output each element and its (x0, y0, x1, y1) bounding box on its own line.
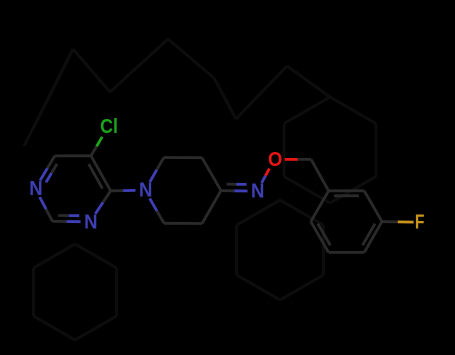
svg-text:O: O (268, 149, 282, 171)
svg-text:N: N (29, 178, 42, 200)
svg-text:N: N (84, 211, 97, 233)
svg-text:Cl: Cl (100, 116, 118, 138)
svg-text:F: F (415, 212, 425, 234)
svg-text:N: N (139, 180, 152, 202)
svg-text:N: N (251, 181, 264, 203)
